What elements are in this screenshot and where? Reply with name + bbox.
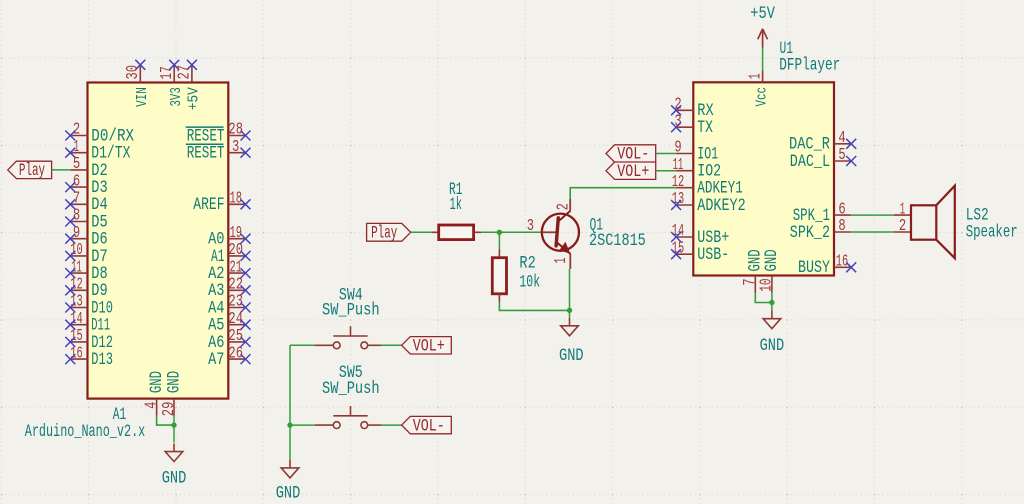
svg-text:BUSY: BUSY bbox=[798, 258, 830, 278]
svg-text:TX: TX bbox=[697, 118, 713, 138]
svg-text:Vcc: Vcc bbox=[753, 87, 771, 107]
svg-text:Arduino_Nano_v2.x: Arduino_Nano_v2.x bbox=[25, 422, 146, 442]
svg-text:21: 21 bbox=[229, 258, 242, 276]
svg-text:SW_Push: SW_Push bbox=[322, 379, 380, 399]
svg-text:5: 5 bbox=[73, 155, 80, 173]
svg-text:1: 1 bbox=[900, 200, 905, 218]
svg-text:10k: 10k bbox=[519, 272, 540, 292]
svg-text:R2: R2 bbox=[519, 254, 535, 274]
svg-text:3V3: 3V3 bbox=[167, 87, 185, 106]
svg-text:6: 6 bbox=[838, 200, 845, 218]
svg-text:SPK_2: SPK_2 bbox=[790, 223, 830, 243]
svg-text:GND: GND bbox=[162, 468, 187, 488]
svg-text:26: 26 bbox=[228, 344, 243, 362]
svg-text:19: 19 bbox=[229, 224, 242, 242]
svg-text:7: 7 bbox=[741, 279, 759, 286]
svg-text:15: 15 bbox=[672, 239, 685, 257]
svg-text:1: 1 bbox=[746, 73, 764, 79]
svg-text:AREF: AREF bbox=[193, 195, 224, 215]
svg-text:GND: GND bbox=[559, 346, 584, 366]
svg-text:13: 13 bbox=[672, 190, 685, 208]
svg-text:3: 3 bbox=[232, 138, 239, 156]
svg-text:A7: A7 bbox=[208, 350, 224, 370]
svg-text:4: 4 bbox=[838, 129, 845, 147]
svg-text:8: 8 bbox=[73, 207, 80, 225]
svg-text:VOL+: VOL+ bbox=[617, 162, 649, 182]
svg-text:1k: 1k bbox=[450, 195, 463, 215]
svg-text:15: 15 bbox=[70, 327, 83, 345]
svg-text:17: 17 bbox=[158, 66, 176, 79]
svg-text:30: 30 bbox=[124, 65, 142, 80]
svg-text:5: 5 bbox=[838, 146, 845, 164]
svg-text:VOL+: VOL+ bbox=[413, 337, 445, 357]
svg-text:9: 9 bbox=[73, 224, 80, 242]
svg-text:D13: D13 bbox=[91, 350, 113, 370]
svg-text:12: 12 bbox=[70, 276, 83, 294]
svg-text:28: 28 bbox=[228, 121, 243, 139]
svg-text:8: 8 bbox=[838, 217, 845, 235]
svg-text:14: 14 bbox=[70, 310, 83, 328]
svg-text:4: 4 bbox=[142, 402, 160, 409]
svg-text:RESET: RESET bbox=[187, 144, 225, 164]
svg-text:18: 18 bbox=[229, 190, 242, 208]
svg-text:Play: Play bbox=[371, 224, 397, 244]
svg-text:7: 7 bbox=[73, 190, 80, 208]
svg-text:11: 11 bbox=[71, 258, 81, 276]
svg-text:DFPlayer: DFPlayer bbox=[779, 56, 840, 76]
svg-text:1: 1 bbox=[552, 258, 570, 264]
svg-text:ADKEY2: ADKEY2 bbox=[697, 196, 745, 216]
svg-text:2: 2 bbox=[554, 203, 572, 210]
svg-text:1: 1 bbox=[74, 138, 79, 156]
svg-text:+5V: +5V bbox=[750, 4, 775, 24]
svg-text:USB-: USB- bbox=[697, 245, 729, 265]
svg-text:Play: Play bbox=[19, 161, 45, 181]
svg-text:SW_Push: SW_Push bbox=[322, 300, 380, 320]
svg-text:GND: GND bbox=[760, 336, 785, 356]
svg-text:GND: GND bbox=[164, 371, 184, 393]
svg-text:VIN: VIN bbox=[133, 87, 151, 107]
svg-text:29: 29 bbox=[160, 402, 178, 417]
svg-text:2SC1815: 2SC1815 bbox=[589, 231, 646, 251]
svg-text:2: 2 bbox=[73, 121, 80, 139]
svg-text:GND: GND bbox=[762, 249, 782, 271]
svg-text:6: 6 bbox=[73, 172, 80, 190]
svg-text:DAC_L: DAC_L bbox=[790, 152, 830, 172]
svg-text:Speaker: Speaker bbox=[966, 223, 1018, 243]
svg-text:10: 10 bbox=[70, 241, 83, 259]
svg-text:3: 3 bbox=[527, 217, 534, 235]
svg-text:14: 14 bbox=[672, 222, 685, 240]
svg-text:2: 2 bbox=[899, 217, 906, 235]
svg-text:20: 20 bbox=[228, 241, 243, 259]
svg-text:22: 22 bbox=[228, 276, 243, 294]
svg-text:27: 27 bbox=[176, 65, 194, 80]
svg-text:VOL-: VOL- bbox=[413, 416, 445, 436]
svg-text:12: 12 bbox=[672, 173, 685, 191]
svg-text:GND: GND bbox=[276, 484, 301, 504]
svg-text:23: 23 bbox=[228, 293, 243, 311]
svg-text:16: 16 bbox=[70, 344, 83, 362]
svg-text:13: 13 bbox=[70, 293, 83, 311]
svg-text:25: 25 bbox=[228, 327, 243, 345]
svg-text:16: 16 bbox=[836, 253, 849, 271]
svg-text:10: 10 bbox=[758, 279, 776, 292]
svg-text:+5V: +5V bbox=[185, 86, 203, 110]
svg-text:24: 24 bbox=[228, 310, 243, 328]
